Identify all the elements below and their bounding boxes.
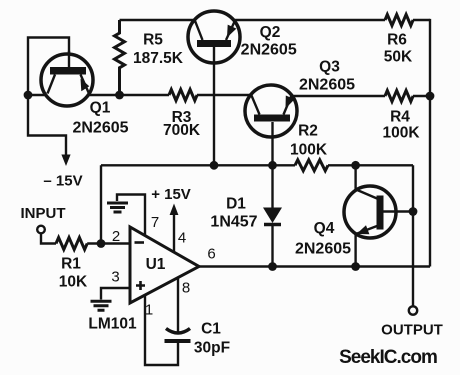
svg-text:Q1: Q1 <box>90 100 111 117</box>
wire pin1 to C1 bottom <box>145 296 178 366</box>
ground pin7 <box>107 203 128 212</box>
svg-text:6: 6 <box>207 245 215 262</box>
wire Q4 emitter drop <box>354 234 356 267</box>
wire Q2 base stem <box>213 47 215 166</box>
svg-text:Q3: Q3 <box>319 59 340 76</box>
capacitor C1 <box>165 329 191 342</box>
wire R6 to right rail <box>413 19 430 21</box>
wire Q1 left stub <box>28 94 46 96</box>
svg-text:OUTPUT: OUTPUT <box>381 322 443 339</box>
wire mid rail left <box>101 164 295 166</box>
wire Q3 right to R4 <box>292 95 385 97</box>
resistor R3 <box>169 90 197 101</box>
wire Q3 base stem <box>271 122 273 165</box>
wire left drop to pin2 <box>100 165 102 243</box>
svg-text:50K: 50K <box>384 49 413 66</box>
wire R3 to Q3 <box>197 94 250 96</box>
wire Q4 collector drop <box>354 165 356 190</box>
node junction D1 bottom <box>268 262 277 271</box>
svg-text:2N2605: 2N2605 <box>299 77 355 94</box>
node junction D1 top <box>268 161 277 170</box>
wire Q1 base loop <box>28 38 69 96</box>
resistor R5 <box>115 20 125 95</box>
svg-text:700K: 700K <box>163 122 201 139</box>
svg-text:U1: U1 <box>146 256 166 273</box>
svg-text:SeekIC.com: SeekIC.com <box>339 347 437 368</box>
ground pin3 <box>91 301 112 310</box>
wire top rail left (R5 corner to Q2) <box>120 19 195 21</box>
node junction Q4 emitter bottom <box>351 262 360 271</box>
wire op-amp output rail <box>199 265 430 267</box>
minus sign pin2 <box>135 241 145 244</box>
node junction R4-right-rail <box>426 92 435 101</box>
resistor R1 <box>56 238 87 250</box>
resistor R2 <box>295 160 328 171</box>
transistor Q1 <box>41 51 93 106</box>
node junction Q4 base <box>409 207 418 216</box>
wire Q1 right to R3 <box>88 94 169 96</box>
wire R4 to right rail <box>413 95 430 97</box>
svg-text:100K: 100K <box>382 125 420 142</box>
svg-text:R1: R1 <box>61 256 81 273</box>
wire pin7 to ground <box>117 195 145 237</box>
svg-text:2N2605: 2N2605 <box>295 241 351 258</box>
wire to -15V arrow <box>28 95 66 157</box>
node junction R5 bottom <box>115 91 124 100</box>
node junction pin2 <box>97 239 106 248</box>
plus sign pin3 <box>136 281 145 290</box>
svg-text:3: 3 <box>111 268 119 285</box>
wire pin3 to ground <box>101 288 130 300</box>
svg-text:INPUT: INPUT <box>21 205 66 222</box>
svg-text:R5: R5 <box>143 32 163 49</box>
arrowhead +15V <box>170 204 179 216</box>
resistor R4 <box>385 91 413 102</box>
svg-text:– 15V: – 15V <box>43 172 82 189</box>
wire R1 to op-amp pin2 <box>87 242 130 244</box>
transistor Q2 <box>188 11 240 63</box>
terminal OUTPUT circle <box>409 306 417 314</box>
transistor Q3 <box>245 85 297 137</box>
svg-text:7: 7 <box>151 214 159 231</box>
node junction Q1 left <box>24 91 33 100</box>
wire pin4 +15V stem <box>173 213 175 253</box>
transistor Q4 <box>344 186 396 238</box>
svg-text:4: 4 <box>178 229 186 246</box>
svg-text:100K: 100K <box>290 142 328 159</box>
svg-text:Q4: Q4 <box>314 220 335 237</box>
wire top rail right (Q2 to R6) <box>234 19 385 21</box>
wire mid rail right <box>328 164 413 166</box>
svg-text:R6: R6 <box>387 32 407 49</box>
svg-text:C1: C1 <box>201 321 221 338</box>
svg-text:D1: D1 <box>226 196 246 213</box>
svg-text:30pF: 30pF <box>194 340 230 357</box>
arrowhead -15V <box>61 155 70 167</box>
svg-text:2: 2 <box>112 228 120 245</box>
wire output column <box>412 165 414 306</box>
wire right rail <box>429 19 431 267</box>
svg-text:8: 8 <box>182 279 190 296</box>
svg-text:1: 1 <box>145 301 153 318</box>
node junction Q2 stem / mid rail <box>210 161 219 170</box>
svg-text:2N2605: 2N2605 <box>241 42 297 59</box>
svg-text:1N457: 1N457 <box>210 214 257 231</box>
svg-text:R4: R4 <box>390 109 410 126</box>
svg-text:2N2605: 2N2605 <box>72 119 128 136</box>
svg-text:R2: R2 <box>298 123 318 140</box>
op-amp U1 <box>130 227 199 303</box>
terminal INPUT circle <box>37 226 45 234</box>
diode D1 <box>263 165 282 266</box>
wire Q4 base to output column <box>384 210 414 212</box>
svg-text:LM101: LM101 <box>88 316 137 333</box>
wire input stem <box>41 233 56 243</box>
svg-text:+ 15V: + 15V <box>151 186 191 203</box>
svg-text:10K: 10K <box>59 274 88 291</box>
resistor R6 <box>385 15 413 26</box>
svg-text:187.5K: 187.5K <box>133 50 184 67</box>
svg-text:Q2: Q2 <box>260 24 281 41</box>
wire pin8 to C1 <box>177 278 179 334</box>
node junction Q4 collector / mid rail <box>351 161 360 170</box>
